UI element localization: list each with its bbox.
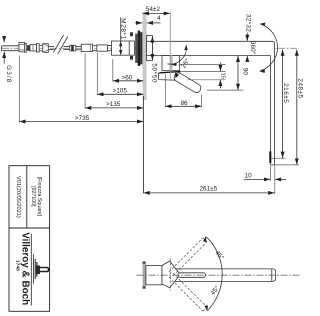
neck 3: [93, 45, 98, 47]
extension line handle top: [181, 70, 226, 72]
stub: [107, 45, 111, 47]
svg-text:360°: 360°: [249, 41, 257, 55]
aerator: [269, 151, 271, 163]
bolt stub bottom: [130, 56, 133, 60]
svg-text:86: 86: [181, 100, 189, 107]
svg-text:V01(20/05/2021): V01(20/05/2021): [15, 176, 21, 218]
title block frame: [9, 166, 50, 312]
threaded neck: [26, 45, 30, 47]
ring: [37, 44, 40, 52]
hose segment 3: [76, 45, 82, 47]
svg-text:>105: >105: [113, 87, 128, 94]
connector cylinder: [97, 45, 108, 51]
dim G3/8: [3, 37, 5, 42]
crimp sleeve: [70, 45, 76, 51]
svg-text:4: 4: [157, 15, 161, 22]
spout downpipe: [270, 56, 272, 165]
logo icon strokes: [33, 254, 35, 284]
dim 50*50: [151, 36, 153, 60]
fitting: [30, 45, 37, 51]
top view wall plate: [143, 262, 146, 289]
top view dashed arm lower: [169, 273, 207, 311]
dim 216±5: [282, 50, 284, 158]
dim 26 degree arc: [168, 45, 187, 64]
cone fitting: [43, 44, 49, 53]
svg-text:>60: >60: [122, 74, 133, 81]
handle joint mark: [175, 72, 179, 78]
svg-text:261±5: 261±5: [200, 186, 218, 193]
wall extension line: [142, 96, 144, 193]
hose segment 1: [49, 46, 55, 48]
logo icon horseshoe: [40, 267, 50, 273]
svg-text:32*32: 32*32: [244, 14, 251, 32]
svg-text:15: 15: [220, 73, 226, 79]
top view dashed arm upper: [169, 238, 207, 276]
svg-text:216±5: 216±5: [282, 83, 289, 103]
handle base: [158, 72, 180, 81]
svg-text:[927100]: [927100]: [30, 186, 36, 207]
top view centerline: [137, 274, 301, 276]
top view 45 degree arc: [206, 237, 222, 310]
extension line vertical ref: [169, 12, 171, 79]
centerline main axis: [2, 47, 299, 49]
break symbol: [53, 35, 63, 53]
supply pipe left end: [2, 46, 19, 51]
handle housing: [162, 56, 180, 71]
dim 90: [237, 56, 239, 90]
bolt stub top: [130, 32, 133, 36]
top view vertical dashed centerline: [169, 259, 171, 291]
svg-text:50*50: 50*50: [150, 63, 157, 83]
G3/8 hex nut: [19, 42, 24, 51]
top view spout tube: [174, 269, 276, 282]
spout tube: [152, 41, 274, 55]
handle grip: [173, 71, 203, 94]
svg-text:1748: 1748: [15, 260, 20, 272]
dim 248±5: [296, 50, 298, 165]
svg-text:54±2: 54±2: [146, 6, 161, 13]
neck 2: [39, 44, 43, 46]
svg-text:90: 90: [242, 68, 249, 76]
top view handle slot: [178, 273, 206, 278]
svg-text:[Finezza Square]: [Finezza Square]: [36, 177, 42, 217]
top view escutcheon diamond: [162, 261, 180, 288]
logo underline: [30, 234, 32, 306]
wall section: [143, 12, 147, 100]
top view escutcheon body: [146, 265, 162, 284]
escutcheon plate: [147, 36, 153, 61]
dim 15: [180, 63, 226, 65]
mounting flange stack: [135, 34, 138, 63]
svg-text:>135: >135: [106, 101, 121, 108]
svg-text:G3/8: G3/8: [5, 65, 12, 83]
hose segment 2: [63, 46, 69, 48]
cartridge stem: [170, 56, 173, 70]
washer collar: [24, 43, 26, 52]
svg-text:10: 10: [245, 172, 253, 179]
svg-text:248±5: 248±5: [296, 78, 303, 98]
valve body M28: [112, 41, 135, 55]
adapter cylinder: [81, 44, 92, 51]
svg-text:>735: >735: [75, 115, 90, 122]
